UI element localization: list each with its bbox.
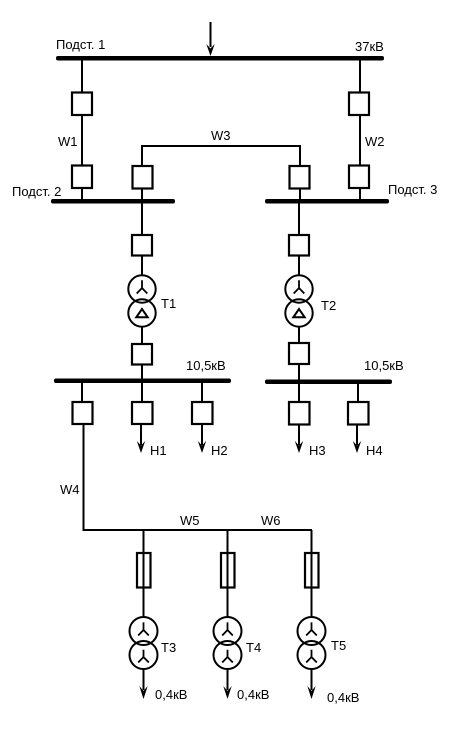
wire branch to T3	[143, 530, 145, 618]
wire busbar to H2 breaker	[201, 382, 203, 403]
svg-text:H1: H1	[150, 443, 167, 458]
breaker H3	[289, 402, 310, 425]
feeder input arrow	[206, 22, 214, 56]
svg-text:W6: W6	[261, 513, 281, 528]
svg-text:W4: W4	[60, 482, 80, 497]
transformer T2 secondary winding	[285, 299, 312, 326]
wire W3 right to busbar3	[299, 189, 301, 203]
breaker W1 bottom	[72, 166, 92, 189]
breaker W2 top	[349, 93, 369, 116]
wire W2 segment	[359, 115, 361, 166]
svg-text:W5: W5	[180, 513, 200, 528]
transformer T1 delta symbol	[136, 309, 147, 317]
transformer T4 secondary winding	[214, 641, 242, 669]
fuse F2	[221, 553, 235, 588]
wire W2 drop from busbar1	[359, 60, 361, 93]
transformer T2 star symbol	[294, 280, 305, 293]
wire T2 to breaker	[298, 326, 300, 344]
transformer T5 secondary winding	[298, 641, 326, 669]
fuse F3	[305, 553, 319, 588]
load arrow H3	[295, 425, 303, 453]
svg-text:Подст. 1: Подст. 1	[56, 37, 105, 52]
wire breaker to busbar 10.5kV right	[298, 364, 300, 381]
transformer T5 primary winding	[298, 617, 326, 645]
transformer T3 star symbol (primary)	[138, 622, 149, 635]
load arrow H4	[353, 425, 361, 453]
wire busbar to H4 breaker	[357, 383, 359, 403]
wire breaker to T1	[141, 255, 143, 277]
busbar Подст.1 37кВ	[56, 56, 384, 61]
svg-text:T2: T2	[321, 298, 336, 313]
load arrow H1	[137, 424, 145, 453]
svg-text:T5: T5	[331, 638, 346, 653]
busbar 10.5кВ left	[54, 379, 231, 384]
transformer T1 star symbol	[137, 280, 148, 293]
wire busbar to H3 breaker	[298, 383, 300, 403]
breaker H4	[348, 402, 369, 425]
svg-text:Подст. 3: Подст. 3	[388, 182, 437, 197]
svg-text:Подст. 2: Подст. 2	[12, 184, 61, 199]
wire busbar to H1 breaker	[141, 382, 143, 403]
svg-text:W3: W3	[211, 128, 231, 143]
transformer T2 primary winding	[285, 275, 312, 302]
svg-text:W2: W2	[365, 134, 385, 149]
busbar Подст.3	[265, 199, 389, 204]
svg-text:H4: H4	[366, 443, 383, 458]
svg-text:37кВ: 37кВ	[355, 39, 384, 54]
breaker above T1	[132, 235, 152, 256]
breaker W1 top	[72, 93, 92, 116]
wire breaker to busbar 10.5kV left	[141, 364, 143, 380]
breaker W2 bottom	[349, 166, 369, 189]
wire branch to T4	[227, 530, 229, 618]
wire W3 horizontal tie	[142, 146, 300, 167]
svg-text:H3: H3	[309, 443, 326, 458]
breaker W3 left	[133, 166, 153, 189]
svg-text:0,4кВ: 0,4кВ	[155, 687, 187, 702]
wire busbar2 to T1 breaker	[141, 203, 143, 236]
load arrow T3 0.4kV	[139, 669, 147, 699]
breaker W3 right	[290, 166, 310, 189]
breaker below T1	[132, 344, 152, 365]
transformer T2 delta symbol	[293, 309, 304, 317]
svg-text:0,4кВ: 0,4кВ	[327, 690, 359, 705]
load arrow H2	[198, 424, 206, 453]
wire W4 feeder	[83, 424, 85, 531]
wire T1 to breaker	[141, 326, 143, 345]
breaker H2	[192, 402, 213, 424]
wire W1 drop from busbar1	[81, 60, 83, 93]
svg-text:W1: W1	[58, 134, 78, 149]
transformer T3 primary winding	[130, 617, 158, 645]
wire W1 to busbar2	[81, 188, 83, 202]
wire busbar to W4 breaker	[81, 382, 83, 403]
fuse F1	[137, 553, 151, 588]
transformer T5 star symbol (primary)	[306, 622, 317, 635]
transformer T5 star symbol (secondary)	[306, 650, 317, 663]
svg-text:T1: T1	[161, 296, 176, 311]
transformer T1 secondary winding	[128, 299, 155, 326]
wire busbar3 to T2 breaker	[298, 203, 300, 236]
wire branch to T5	[311, 530, 313, 618]
transformer T3 secondary winding	[130, 641, 158, 669]
transformer T3 star symbol (secondary)	[138, 650, 149, 663]
transformer T4 star symbol (secondary)	[222, 650, 233, 663]
transformer T4 primary winding	[214, 617, 242, 645]
transformer T4 star symbol (primary)	[222, 622, 233, 635]
breaker H1	[132, 402, 153, 424]
breaker above T2	[289, 235, 309, 256]
svg-text:0,4кВ: 0,4кВ	[237, 687, 269, 702]
svg-text:T3: T3	[161, 640, 176, 655]
wire breaker to T2	[298, 255, 300, 277]
busbar Подст.2	[51, 199, 175, 204]
breaker below T2	[289, 343, 309, 364]
transformer T1 primary winding	[128, 275, 155, 302]
svg-text:T4: T4	[246, 640, 261, 655]
wire W3 left to busbar2	[141, 189, 143, 203]
svg-text:10,5кВ: 10,5кВ	[186, 358, 226, 373]
wire W1 segment	[81, 115, 83, 166]
busbar 10.5кВ right	[265, 380, 392, 385]
load arrow T4 0.4kV	[223, 669, 231, 699]
wire W4/W5/W6 horizontal feeder	[83, 529, 313, 531]
load arrow T5 0.4kV	[307, 669, 315, 699]
wire W2 to busbar3	[359, 188, 361, 202]
breaker W4	[73, 402, 93, 424]
svg-text:10,5кВ: 10,5кВ	[364, 358, 404, 373]
svg-text:H2: H2	[211, 443, 228, 458]
